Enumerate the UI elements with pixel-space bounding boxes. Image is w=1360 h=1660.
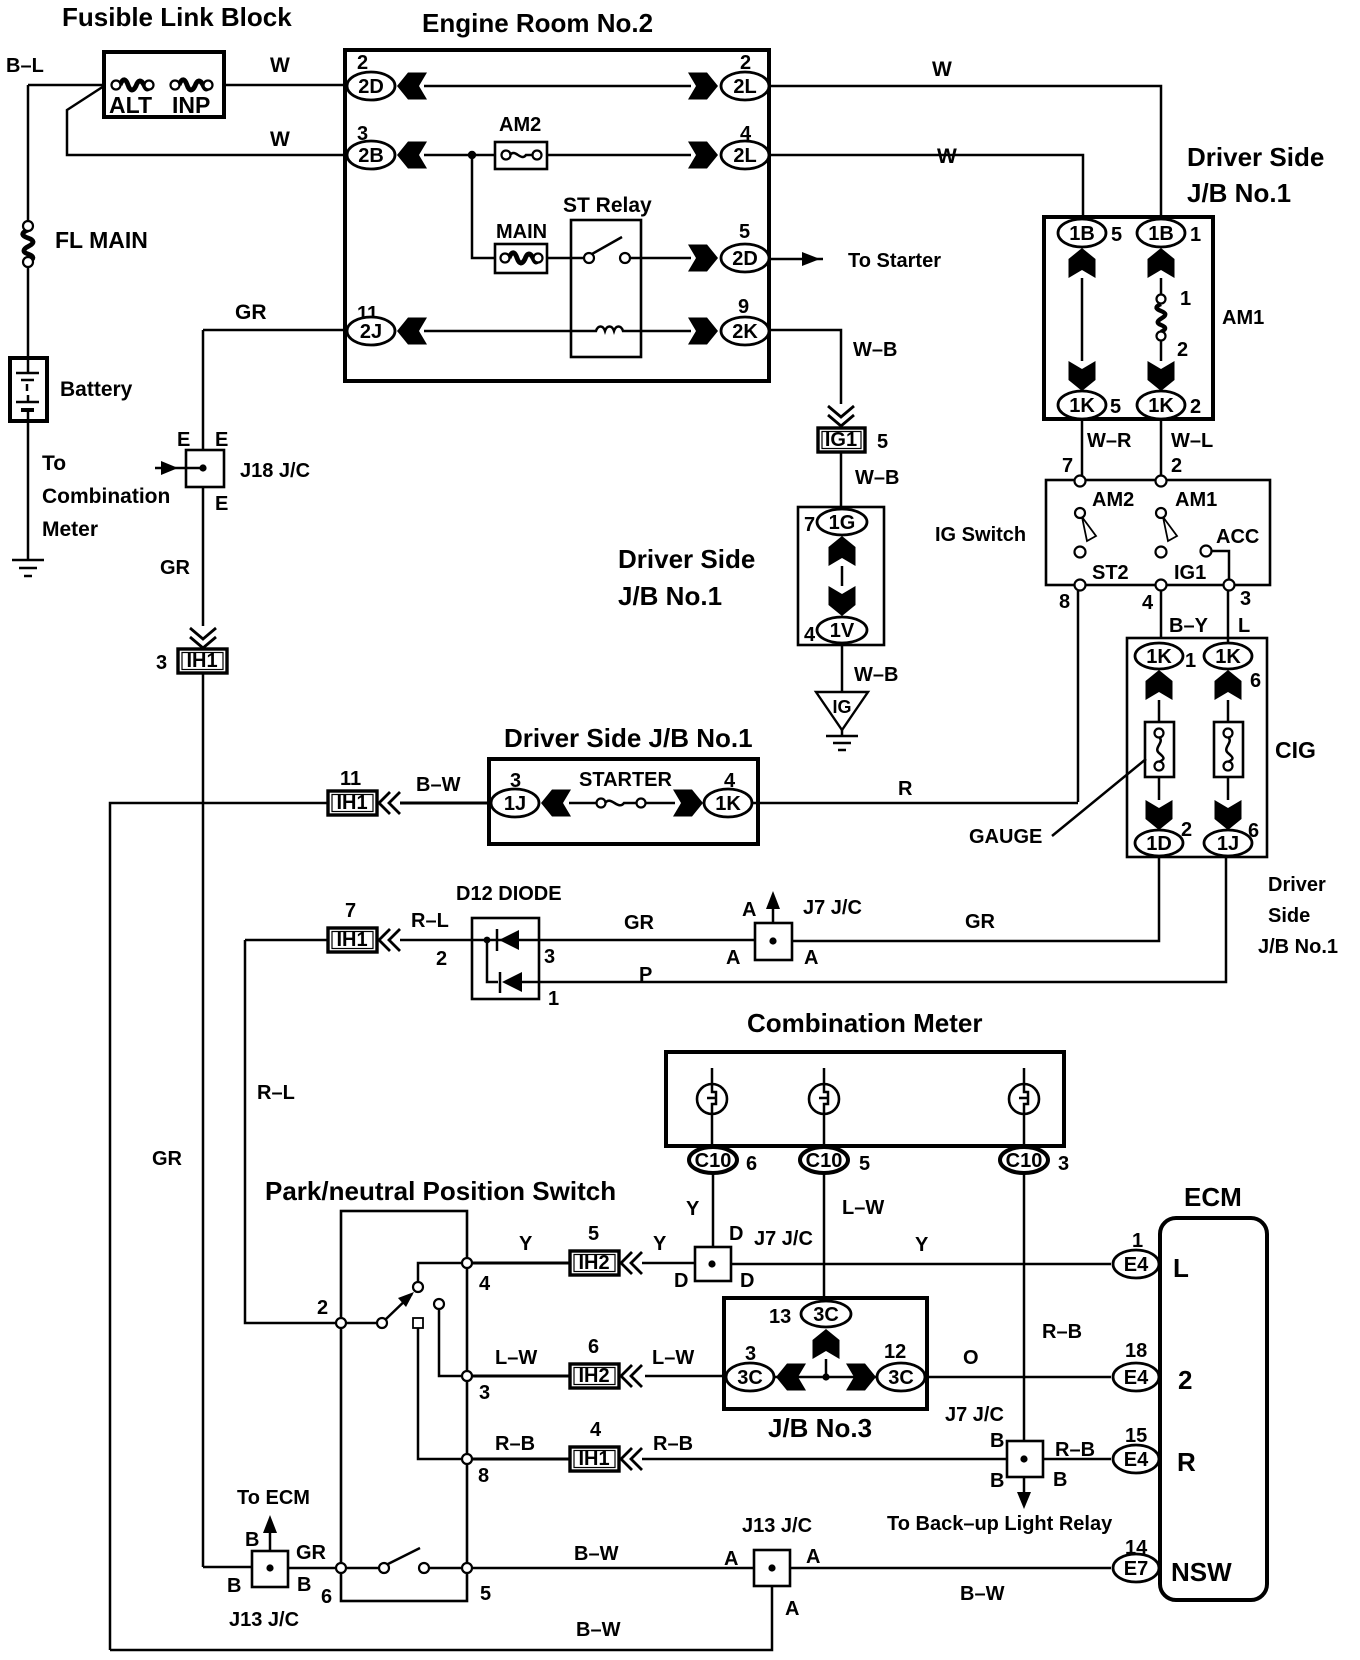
contact pin8 square <box>413 1318 423 1328</box>
svg-text:3C: 3C <box>888 1367 914 1389</box>
connector 2K pin9 <box>721 296 769 345</box>
svg-text:R–B: R–B <box>1055 1439 1095 1461</box>
arrow into 2D <box>397 73 427 100</box>
svg-text:7: 7 <box>345 900 356 922</box>
svg-text:Side: Side <box>1268 905 1310 927</box>
svg-text:8: 8 <box>478 1465 489 1487</box>
wire 2K to IG1 tag <box>769 330 841 404</box>
svg-text:7: 7 <box>804 514 815 536</box>
svg-text:A: A <box>785 1598 799 1620</box>
svg-text:3: 3 <box>544 946 555 968</box>
chevrons IH1 pin11 <box>379 792 400 814</box>
arrow into 2K pin9 <box>688 318 718 345</box>
connector 3C pin3 <box>726 1343 774 1391</box>
switch arm with arrowhead <box>386 1292 414 1319</box>
contact pin4 <box>413 1282 423 1292</box>
connector 1K pin2 <box>1137 391 1201 419</box>
tag IH1 pin7 <box>328 900 377 952</box>
svg-text:B: B <box>245 1529 259 1551</box>
svg-text:W–B: W–B <box>853 339 897 361</box>
svg-text:B–W: B–W <box>576 1619 621 1641</box>
svg-text:2: 2 <box>1177 339 1188 361</box>
svg-text:GR: GR <box>624 912 655 934</box>
svg-text:Driver Side J/B No.1: Driver Side J/B No.1 <box>504 723 753 753</box>
ground point IG <box>816 692 868 750</box>
wire breaker to down arrow left <box>1158 777 1161 800</box>
svg-text:3: 3 <box>479 1382 490 1404</box>
wire row2 inside engine box <box>424 154 495 157</box>
wire R-L row from bus <box>245 939 328 942</box>
svg-text:ST Relay: ST Relay <box>563 194 652 217</box>
arrow up 1G <box>829 536 856 566</box>
svg-text:9: 9 <box>738 296 749 318</box>
svg-text:W–B: W–B <box>854 664 898 686</box>
arrow into 2B <box>397 142 427 169</box>
svg-text:4: 4 <box>804 624 816 646</box>
svg-text:C10: C10 <box>695 1150 732 1172</box>
wire IH1 tag left to left bus <box>110 803 328 1650</box>
svg-text:2K: 2K <box>732 321 758 343</box>
svg-text:5: 5 <box>877 431 888 453</box>
junction block starter box <box>489 759 758 844</box>
svg-text:Driver Side: Driver Side <box>618 544 755 574</box>
svg-text:STARTER: STARTER <box>579 769 673 791</box>
wire right AM1 lower <box>1160 340 1163 361</box>
svg-text:1K: 1K <box>715 793 741 815</box>
connector 1B pin1 <box>1137 219 1201 247</box>
svg-text:Meter: Meter <box>42 518 98 541</box>
Engine Room No.2 box <box>345 50 769 381</box>
svg-text:R–B: R–B <box>1042 1321 1082 1343</box>
svg-text:L–W: L–W <box>495 1347 537 1369</box>
svg-text:W–R: W–R <box>1087 430 1132 452</box>
wire battery to ground <box>27 421 30 560</box>
chevrons down into IH1 pin3 <box>190 628 216 648</box>
svg-text:D: D <box>729 1223 743 1245</box>
svg-text:Battery: Battery <box>60 378 133 401</box>
bottom switch contact <box>419 1563 429 1573</box>
svg-text:Park/neutral Position Switch: Park/neutral Position Switch <box>265 1176 616 1206</box>
svg-text:Combination Meter: Combination Meter <box>747 1008 982 1038</box>
arrow into 3C3 <box>776 1364 806 1391</box>
svg-text:IH2: IH2 <box>578 1365 609 1387</box>
connector 2L pin4 <box>721 123 769 169</box>
wire contact to pin8 <box>418 1328 462 1459</box>
junction dot row2 <box>468 151 476 159</box>
arrow up CIG left <box>1146 670 1173 700</box>
wire across J/B No.3 <box>775 1376 877 1379</box>
wire fuse to arrow <box>645 802 675 805</box>
wire J7B down arrow to back-up light relay <box>887 1477 1113 1535</box>
IG switch IG1 terminal <box>1156 562 1207 591</box>
connector 1B pin5 <box>1058 219 1122 247</box>
connector 1K pin6 <box>1204 643 1261 692</box>
svg-text:D: D <box>740 1270 754 1292</box>
svg-text:W–B: W–B <box>855 467 899 489</box>
svg-text:R–B: R–B <box>653 1433 693 1455</box>
connector E7 pin14 <box>1113 1537 1232 1587</box>
svg-text:J/B No.1: J/B No.1 <box>1187 178 1291 208</box>
wire B-L vertical to FL MAIN <box>27 85 30 224</box>
svg-text:E: E <box>215 493 228 515</box>
wire to fuse <box>569 802 597 805</box>
connector C10 pin5 <box>800 1147 870 1175</box>
diode 2 bottom <box>500 972 539 993</box>
svg-text:IH1: IH1 <box>186 650 217 672</box>
svg-text:1V: 1V <box>830 620 855 642</box>
svg-text:C10: C10 <box>806 1150 843 1172</box>
svg-text:IG1: IG1 <box>1174 562 1206 584</box>
svg-text:GR: GR <box>235 301 267 324</box>
bottom switch wire <box>346 1567 379 1570</box>
svg-text:R: R <box>898 778 913 800</box>
svg-text:1B: 1B <box>1069 223 1095 245</box>
pin 5 junction <box>462 1563 472 1573</box>
chevrons down into IG1 <box>828 406 854 426</box>
wire arrow to junction <box>825 1359 828 1377</box>
arrow up right AM1 <box>1148 248 1175 278</box>
svg-text:R: R <box>1177 1447 1196 1477</box>
switch common wire <box>346 1322 377 1325</box>
IG switch ACC bottom terminal <box>1224 580 1235 591</box>
wire breaker to down arrow right <box>1227 777 1230 800</box>
svg-text:7: 7 <box>1062 455 1073 477</box>
svg-text:L: L <box>1238 615 1250 637</box>
arrow down CIG right <box>1215 800 1242 830</box>
arrow up 3C13 <box>813 1329 840 1359</box>
connector 2D pin2 <box>347 52 395 100</box>
chevrons IH1 pin4 <box>621 1448 642 1470</box>
wire J13A down to bottom bus <box>110 1586 772 1650</box>
svg-text:R–B: R–B <box>495 1433 535 1455</box>
svg-text:1J: 1J <box>504 793 526 815</box>
connector 1V pin4 <box>804 617 867 646</box>
svg-text:Engine Room No.2: Engine Room No.2 <box>422 8 653 38</box>
tag IG1 <box>818 428 888 453</box>
svg-text:GAUGE: GAUGE <box>969 826 1042 848</box>
svg-text:J/B No.3: J/B No.3 <box>768 1413 872 1443</box>
svg-text:1: 1 <box>1185 650 1196 672</box>
contact pin3 <box>434 1299 444 1309</box>
connector C10 pin6 <box>689 1147 757 1175</box>
junction connector J7 J/C (A) <box>726 891 862 969</box>
wire relay coil to 2K <box>641 330 691 333</box>
tag IH1 pin4 <box>472 1419 619 1471</box>
wire R-B J7B to E4 pin15 <box>1043 1458 1111 1461</box>
svg-text:W–L: W–L <box>1171 430 1213 452</box>
fusible link block box <box>104 52 224 117</box>
wire to breaker left <box>1158 700 1161 722</box>
CIG block box <box>1127 638 1267 857</box>
junction dot diode <box>484 937 491 944</box>
svg-text:Y: Y <box>915 1234 929 1256</box>
combination meter box <box>666 1052 1064 1146</box>
junction connector J13 J/C (B) <box>227 1487 327 1631</box>
svg-text:O: O <box>963 1347 979 1369</box>
svg-text:GR: GR <box>296 1542 327 1564</box>
svg-text:1G: 1G <box>829 512 856 534</box>
svg-text:A: A <box>726 947 740 969</box>
svg-text:E4: E4 <box>1124 1254 1149 1276</box>
svg-text:5: 5 <box>1111 224 1122 246</box>
svg-text:2: 2 <box>1190 396 1201 418</box>
bottom switch pin6 junction <box>336 1563 346 1573</box>
connector 1K pin1 <box>1135 643 1196 672</box>
svg-text:D: D <box>674 1270 688 1292</box>
svg-text:IG: IG <box>832 697 851 717</box>
chevrons IH1 pin7 <box>379 929 400 951</box>
fuse ALT <box>109 80 154 118</box>
svg-text:3C: 3C <box>813 1304 839 1326</box>
wire ST2 to R wire <box>1077 591 1080 802</box>
svg-text:2: 2 <box>1178 1365 1192 1395</box>
diode 1 top <box>472 929 539 951</box>
svg-text:B–L: B–L <box>6 55 44 77</box>
svg-text:FL MAIN: FL MAIN <box>55 227 148 253</box>
svg-text:5: 5 <box>859 1153 870 1175</box>
svg-text:W: W <box>932 58 952 81</box>
connector C10 pin3 <box>1000 1147 1069 1175</box>
wire 1V to ground <box>841 644 844 692</box>
wire contact to pin3 <box>439 1309 462 1376</box>
svg-text:A: A <box>806 1546 820 1568</box>
svg-text:2: 2 <box>1171 455 1182 477</box>
svg-text:B: B <box>990 1430 1004 1452</box>
switch pivot contact <box>377 1318 387 1328</box>
svg-text:IH1: IH1 <box>578 1448 609 1470</box>
svg-text:2L: 2L <box>733 145 756 167</box>
svg-text:J7 J/C: J7 J/C <box>945 1404 1004 1426</box>
svg-text:B: B <box>990 1470 1004 1492</box>
circuit breaker CIG <box>1214 722 1243 777</box>
connector E4 pin15 <box>1113 1425 1196 1477</box>
svg-text:1B: 1B <box>1148 223 1174 245</box>
svg-text:A: A <box>742 899 756 921</box>
connector 1G pin7 <box>804 509 867 536</box>
circuit breaker GAUGE <box>1145 722 1174 777</box>
svg-text:2L: 2L <box>733 76 756 98</box>
svg-text:Fusible Link Block: Fusible Link Block <box>62 2 292 32</box>
J/B No.3 box <box>724 1298 927 1409</box>
fuse STARTER <box>579 769 673 808</box>
svg-text:5: 5 <box>1110 396 1121 418</box>
arrow into 1J <box>541 790 571 817</box>
fusible link FL MAIN <box>23 221 148 267</box>
svg-text:To: To <box>42 452 66 475</box>
svg-text:ACC: ACC <box>1216 526 1259 548</box>
chevrons IH2 pin5 <box>621 1252 642 1274</box>
svg-text:E7: E7 <box>1124 1558 1148 1580</box>
svg-text:Combination: Combination <box>42 485 170 508</box>
IG switch AM1 contact <box>1156 476 1218 558</box>
IG Switch box <box>1046 480 1270 585</box>
svg-text:IH1: IH1 <box>336 929 367 951</box>
svg-text:1D: 1D <box>1146 833 1172 855</box>
park/neutral position switch box <box>341 1211 467 1601</box>
wire row1 inside engine box <box>424 85 691 88</box>
connector 1J pin6 <box>1204 830 1252 856</box>
wire diagonal from block to row2 <box>67 86 350 155</box>
svg-text:B: B <box>227 1575 241 1597</box>
svg-text:J7 J/C: J7 J/C <box>803 897 862 919</box>
wire J13B to pin6 <box>288 1567 336 1570</box>
pin 4 junction <box>462 1258 472 1268</box>
svg-text:W: W <box>937 145 957 168</box>
arrow down left AM1 <box>1069 361 1096 391</box>
svg-text:5: 5 <box>480 1583 491 1605</box>
diode block D12 DIODE <box>456 883 562 999</box>
lamp 1 <box>697 1068 727 1148</box>
connector 2L pin2 <box>721 52 769 100</box>
connector 1J pin3 <box>491 770 539 817</box>
svg-text:1J: 1J <box>1217 833 1239 855</box>
svg-text:INP: INP <box>172 92 210 118</box>
wire GR bus corner to J13B <box>203 1566 252 1569</box>
wire left AM1 <box>1081 278 1084 361</box>
wire J18 down <box>202 487 205 626</box>
svg-text:3: 3 <box>1240 588 1251 610</box>
arrow into 2L pin4 <box>688 142 718 169</box>
battery <box>10 358 133 421</box>
tag IH2 pin6 <box>472 1336 619 1388</box>
svg-text:E4: E4 <box>1124 1449 1149 1471</box>
label To Combination Meter <box>42 452 170 541</box>
arrow up left AM1 <box>1069 248 1096 278</box>
svg-text:1: 1 <box>548 988 559 1010</box>
wire to breaker right <box>1227 700 1230 722</box>
connector 2J pin11 <box>347 303 395 345</box>
bottom switch arm <box>388 1548 420 1564</box>
svg-text:2J: 2J <box>360 321 382 343</box>
wire to diode 2 <box>487 940 498 982</box>
svg-text:W: W <box>270 128 290 151</box>
svg-text:6: 6 <box>746 1153 757 1175</box>
svg-text:CIG: CIG <box>1275 737 1316 763</box>
svg-text:5: 5 <box>588 1223 599 1245</box>
svg-text:Driver: Driver <box>1268 874 1326 896</box>
fuse MAIN <box>495 221 547 273</box>
svg-text:4: 4 <box>1142 592 1154 614</box>
wire between arrows 1G <box>841 566 844 586</box>
svg-text:E: E <box>177 429 190 451</box>
connector 1D pin2 <box>1135 830 1183 856</box>
arrow down 1V <box>829 586 856 616</box>
svg-text:ST2: ST2 <box>1092 562 1129 584</box>
wire from fusible block to 2D <box>224 84 350 87</box>
svg-text:Y: Y <box>519 1233 533 1255</box>
svg-text:B–W: B–W <box>574 1543 619 1565</box>
junction connector J18 J/C <box>155 429 310 515</box>
connector 3C pin12 <box>877 1341 925 1391</box>
svg-text:6: 6 <box>321 1586 332 1608</box>
svg-text:1K: 1K <box>1069 395 1095 417</box>
connector 1K pin4 <box>704 770 752 817</box>
svg-text:MAIN: MAIN <box>496 221 547 243</box>
svg-text:D12 DIODE: D12 DIODE <box>456 883 562 905</box>
svg-text:1K: 1K <box>1146 646 1172 668</box>
svg-text:B: B <box>1053 1469 1067 1491</box>
wire row4 inside engine box <box>424 330 571 333</box>
svg-text:1: 1 <box>1180 288 1191 310</box>
pin 8 junction <box>462 1454 472 1464</box>
wire contact to pin4 <box>418 1263 462 1282</box>
label GAUGE with callout <box>969 759 1146 848</box>
wire B-L horizontal <box>28 84 104 87</box>
svg-text:J/B No.1: J/B No.1 <box>618 581 722 611</box>
svg-text:IH1: IH1 <box>336 792 367 814</box>
svg-text:2D: 2D <box>358 76 384 98</box>
svg-text:A: A <box>804 947 818 969</box>
connector 3C pin13 <box>769 1301 851 1328</box>
svg-text:IG1: IG1 <box>825 429 857 451</box>
svg-text:GR: GR <box>965 911 996 933</box>
svg-text:4: 4 <box>590 1419 602 1441</box>
svg-text:AM2: AM2 <box>1092 489 1134 511</box>
arrow down CIG left <box>1146 800 1173 830</box>
svg-text:1: 1 <box>1190 224 1201 246</box>
svg-text:1K: 1K <box>1148 395 1174 417</box>
svg-text:2: 2 <box>317 1297 328 1319</box>
svg-text:B–W: B–W <box>416 774 461 796</box>
arrow down right AM1 <box>1148 361 1175 391</box>
tag IH2 pin5 <box>472 1223 619 1275</box>
svg-text:2: 2 <box>357 52 368 74</box>
svg-text:L: L <box>1173 1253 1189 1283</box>
fuse INP <box>171 80 213 118</box>
IG switch ST2 terminal <box>1075 562 1129 591</box>
junction block 1G/1V <box>798 507 884 645</box>
svg-text:J7 J/C: J7 J/C <box>754 1228 813 1250</box>
svg-text:AM2: AM2 <box>499 114 541 136</box>
svg-text:R–L: R–L <box>411 910 449 932</box>
junction connector J7 J/C (B) <box>945 1404 1095 1492</box>
wire AM2 to 2L pin4 <box>547 154 691 157</box>
arrow into 3C12 <box>846 1364 876 1391</box>
svg-text:B: B <box>297 1574 311 1596</box>
svg-text:ECM: ECM <box>1184 1182 1242 1212</box>
svg-text:J/B No.1: J/B No.1 <box>1258 936 1338 958</box>
connector E4 pin18 <box>1113 1340 1192 1395</box>
svg-text:2: 2 <box>436 948 447 970</box>
junction connector J7 J/C (D) <box>674 1223 813 1292</box>
wire IH1 pin3 down long GR bus <box>202 673 205 1567</box>
arrow into 1K pin4 <box>673 790 703 817</box>
junction block AM1 (Driver Side J/B No.1) <box>1044 217 1213 419</box>
svg-text:NSW: NSW <box>1171 1557 1232 1587</box>
svg-text:B–W: B–W <box>960 1583 1005 1605</box>
pin 3 junction <box>462 1371 472 1381</box>
wire GR from 2J down to J18 <box>202 330 205 450</box>
svg-text:IH2: IH2 <box>578 1252 609 1274</box>
fusible link AM1 <box>1156 288 1191 361</box>
ECM box <box>1160 1218 1267 1600</box>
svg-text:18: 18 <box>1125 1340 1147 1362</box>
svg-text:To Starter: To Starter <box>848 250 941 272</box>
svg-text:R–L: R–L <box>257 1082 295 1104</box>
chevrons IH2 pin6 <box>621 1365 642 1387</box>
bottom switch pivot <box>379 1563 389 1573</box>
wire relay to 2D pin5 <box>630 257 691 260</box>
svg-text:ALT: ALT <box>109 92 152 118</box>
svg-text:A: A <box>724 1548 738 1570</box>
svg-text:W: W <box>270 54 290 77</box>
svg-text:To Back–up Light Relay: To Back–up Light Relay <box>887 1513 1113 1535</box>
wire MAIN to relay <box>547 257 584 260</box>
connector 2D pin5 <box>721 221 769 272</box>
svg-text:To ECM: To ECM <box>237 1487 310 1509</box>
svg-text:13: 13 <box>769 1306 791 1328</box>
svg-text:Y: Y <box>686 1198 700 1220</box>
